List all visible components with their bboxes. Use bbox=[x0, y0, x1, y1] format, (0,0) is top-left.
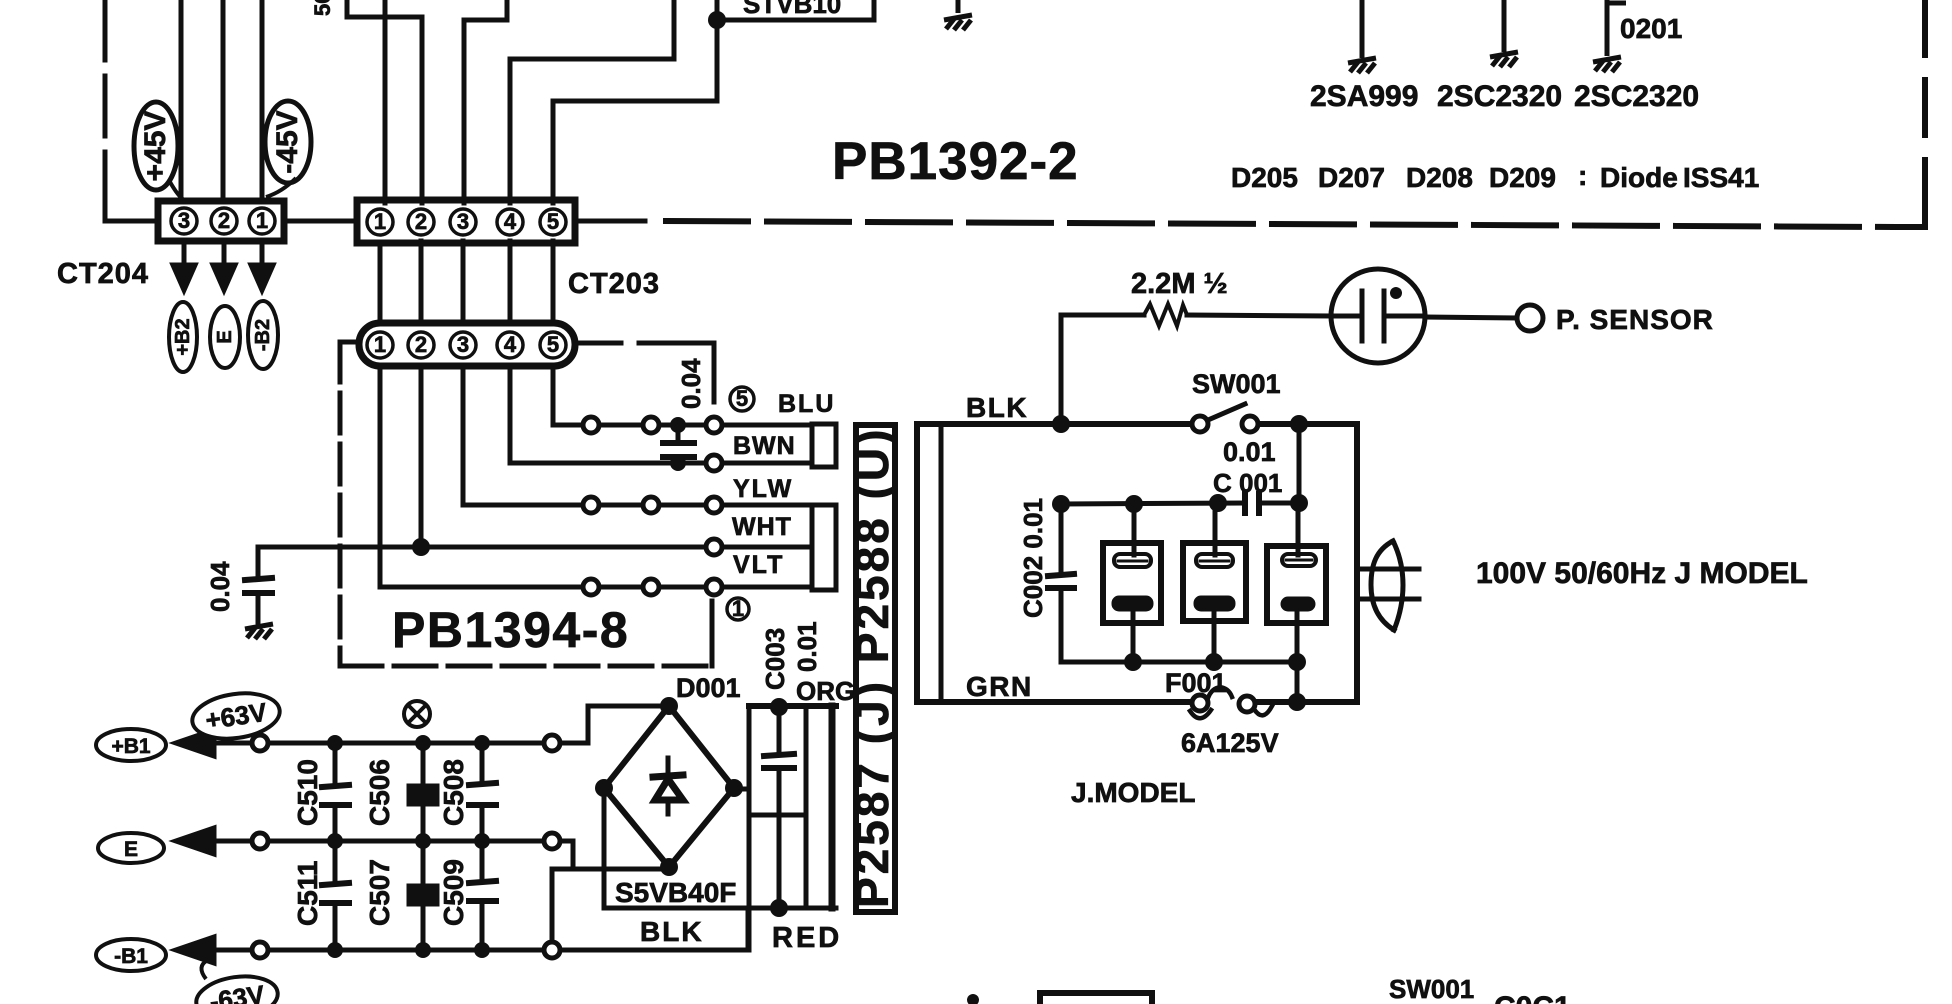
svg-text:3: 3 bbox=[457, 209, 469, 234]
svg-text:F001: F001 bbox=[1165, 668, 1227, 698]
svg-text:+45V: +45V bbox=[139, 111, 172, 182]
svg-text:1: 1 bbox=[374, 209, 386, 234]
svg-text:4: 4 bbox=[504, 209, 517, 234]
svg-text:5: 5 bbox=[736, 386, 748, 411]
svg-text:C003: C003 bbox=[760, 628, 790, 690]
svg-text:2: 2 bbox=[415, 209, 427, 234]
svg-text:100V 50/60Hz J MODEL: 100V 50/60Hz J MODEL bbox=[1476, 557, 1808, 590]
svg-text:CT204: CT204 bbox=[57, 258, 149, 290]
svg-text:-B1: -B1 bbox=[114, 945, 148, 968]
svg-text:C0C1: C0C1 bbox=[1494, 991, 1571, 1004]
svg-text:5: 5 bbox=[547, 209, 559, 234]
svg-text:2: 2 bbox=[218, 208, 230, 233]
svg-text:0201: 0201 bbox=[1620, 13, 1682, 44]
svg-text:CT203: CT203 bbox=[568, 268, 660, 300]
svg-text:50: 50 bbox=[310, 0, 335, 16]
svg-text:PB1392-2: PB1392-2 bbox=[832, 132, 1079, 191]
svg-text:PB1394-8: PB1394-8 bbox=[392, 602, 629, 658]
svg-text:D208: D208 bbox=[1406, 162, 1473, 193]
svg-text:+B1: +B1 bbox=[111, 735, 150, 758]
svg-text:0.01: 0.01 bbox=[1223, 437, 1276, 467]
svg-text:5: 5 bbox=[547, 332, 559, 357]
svg-text:ORG: ORG bbox=[796, 676, 855, 706]
svg-text:2SC2320: 2SC2320 bbox=[1437, 80, 1562, 113]
svg-text:P. SENSOR: P. SENSOR bbox=[1556, 304, 1714, 335]
svg-text:1: 1 bbox=[374, 332, 386, 357]
svg-text:SW001: SW001 bbox=[1192, 369, 1281, 399]
svg-text:BLK: BLK bbox=[966, 392, 1028, 423]
svg-text:C508: C508 bbox=[438, 759, 469, 826]
svg-text:GRN: GRN bbox=[966, 671, 1033, 702]
svg-text:D205: D205 bbox=[1231, 162, 1298, 193]
svg-text:SW001: SW001 bbox=[1389, 974, 1474, 1004]
svg-text:0.04: 0.04 bbox=[205, 561, 235, 612]
svg-text:2SA999: 2SA999 bbox=[1310, 80, 1418, 113]
svg-text:6A125V: 6A125V bbox=[1181, 728, 1279, 758]
svg-text:C510: C510 bbox=[292, 759, 323, 826]
svg-text:+B2: +B2 bbox=[172, 318, 194, 355]
svg-text:C511: C511 bbox=[292, 861, 323, 926]
svg-text:RED: RED bbox=[772, 922, 842, 954]
svg-text:C507: C507 bbox=[364, 859, 395, 926]
svg-text:0.01: 0.01 bbox=[792, 621, 822, 672]
svg-text:0.04: 0.04 bbox=[676, 358, 706, 409]
svg-text:BLK: BLK bbox=[640, 916, 704, 947]
svg-text:-45V: -45V bbox=[271, 110, 304, 173]
svg-text:1: 1 bbox=[732, 596, 744, 621]
svg-text:ISS41: ISS41 bbox=[1683, 162, 1759, 193]
svg-text:D207: D207 bbox=[1318, 162, 1385, 193]
svg-text:4: 4 bbox=[504, 332, 517, 357]
svg-text:-B2: -B2 bbox=[252, 319, 274, 351]
svg-text:C506: C506 bbox=[364, 759, 395, 826]
svg-text:STVB10: STVB10 bbox=[743, 0, 841, 19]
svg-text:E: E bbox=[214, 330, 236, 343]
svg-text:S5VB40F: S5VB40F bbox=[615, 877, 736, 908]
svg-text:P2587 (J) P2588 (U): P2587 (J) P2588 (U) bbox=[846, 427, 898, 908]
svg-text:J.MODEL: J.MODEL bbox=[1071, 777, 1195, 808]
svg-text:3: 3 bbox=[178, 208, 190, 233]
svg-text:C 001: C 001 bbox=[1213, 468, 1282, 498]
svg-text:2.2M ½: 2.2M ½ bbox=[1131, 268, 1228, 300]
svg-text:2: 2 bbox=[415, 332, 427, 357]
svg-text:WHT: WHT bbox=[732, 513, 792, 541]
svg-text:BWN: BWN bbox=[733, 432, 796, 460]
svg-text:Diode: Diode bbox=[1600, 162, 1678, 193]
svg-text:BLU: BLU bbox=[778, 390, 835, 418]
svg-text:E: E bbox=[124, 838, 138, 861]
svg-text:C509: C509 bbox=[438, 859, 469, 926]
svg-text::: : bbox=[1578, 160, 1587, 191]
svg-text:D209: D209 bbox=[1489, 162, 1556, 193]
svg-text:C002 0.01: C002 0.01 bbox=[1018, 498, 1048, 618]
svg-text:2SC2320: 2SC2320 bbox=[1574, 80, 1699, 113]
svg-text:YLW: YLW bbox=[733, 475, 793, 503]
svg-text:VLT: VLT bbox=[733, 551, 784, 579]
svg-text:3: 3 bbox=[457, 332, 469, 357]
svg-text:1: 1 bbox=[256, 208, 268, 233]
svg-text:D001: D001 bbox=[676, 673, 741, 703]
